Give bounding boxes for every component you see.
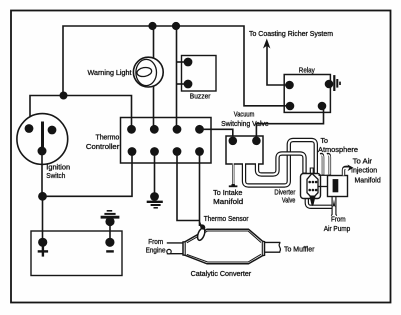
- relay K1: [284, 75, 333, 113]
- ground: relay case: [334, 75, 340, 91]
- svg-text:Controller: Controller: [86, 144, 120, 151]
- diverter valve body: [301, 174, 321, 206]
- hose: vacuum switching valve to diverter valve via overhead loop: [244, 140, 316, 186]
- hose: from air pump: [331, 196, 336, 216]
- port flare: intake manifold stub end: [229, 185, 238, 186]
- label: Ignition Switch: [46, 165, 70, 181]
- hose: diverter valve bottom to air pump line: [307, 197, 334, 207]
- label: Vacuum Switching Valve: [221, 112, 269, 129]
- wire: ignition switch to battery junction: [41, 151, 43, 196]
- label: To Muffler: [284, 246, 315, 253]
- node: top bus junction to buzzer line: [172, 22, 180, 30]
- label: From Engine: [146, 239, 166, 254]
- label: To Coasting Richer System: [249, 31, 333, 38]
- arrow: to coasting richer system: [263, 39, 270, 49]
- lamp: warning light bulb: [133, 57, 163, 87]
- label: Thermo Sensor: [204, 216, 250, 223]
- svg-text:Ignition: Ignition: [46, 165, 70, 172]
- label: Diverter Valve: [274, 189, 296, 204]
- ground: under thermo controller: [147, 192, 163, 208]
- svg-text:Thermo Sensor: Thermo Sensor: [204, 216, 250, 223]
- label: To Atmosphere: [318, 138, 358, 154]
- svg-text:To Intake: To Intake: [213, 190, 242, 197]
- wire: relay to coasting richer system arrow: [267, 45, 290, 85]
- hose: vacuum switching valve to diverter valve housing (crossing line): [257, 154, 305, 175]
- node: left feed junction: [60, 92, 68, 100]
- node: battery junction: [38, 192, 47, 201]
- wire: buzzer line (top bus to controller dot 3): [176, 26, 178, 129]
- wire: controller dot 4 to vacuum switching valve: [200, 129, 233, 141]
- svg-text:Thermo: Thermo: [96, 135, 120, 142]
- svg-text:Air Pump: Air Pump: [324, 226, 351, 233]
- label: Thermo Controller: [86, 135, 120, 152]
- vacuum switching valve V1: [226, 136, 263, 164]
- wire: junction to controller dot 1: [64, 96, 132, 130]
- catalytic converter body: [167, 229, 281, 264]
- arrow: from air pump: [333, 199, 336, 207]
- thermo sensor: [196, 222, 206, 241]
- wire: top bus from left drop to right drop: [63, 26, 290, 106]
- svg-text:Engine: Engine: [146, 247, 166, 254]
- svg-text:To Coasting Richer System: To Coasting Richer System: [249, 31, 333, 38]
- label: From Air Pump: [324, 217, 351, 234]
- svg-text:Catalytic Converter: Catalytic Converter: [191, 271, 252, 278]
- svg-text:From: From: [148, 239, 163, 246]
- hose: vacuum switching valve to intake manifold: [232, 163, 234, 185]
- node: top bus junction to warning light: [148, 22, 156, 30]
- ignition switch S1: [17, 114, 68, 165]
- pipe: to air injection manifold: [344, 165, 354, 176]
- svg-text:To Muffler: To Muffler: [284, 246, 315, 253]
- battery BT1: [31, 231, 122, 276]
- svg-text:Manifold: Manifold: [355, 178, 381, 185]
- label: Warning Light: [88, 70, 132, 77]
- label: Buzzer: [190, 94, 211, 101]
- buzzer B1: [177, 56, 217, 92]
- svg-text:Relay: Relay: [299, 68, 315, 75]
- vents: to atmosphere: [320, 154, 330, 175]
- label: Relay: [299, 68, 315, 75]
- svg-text:Switch: Switch: [46, 173, 65, 180]
- wire: warning light drop (top bus to controller dot 2): [153, 26, 155, 129]
- svg-text:Diverter: Diverter: [274, 189, 296, 196]
- wire: controller dot 2 to ground: [154, 152, 156, 195]
- thermo controller U1: [121, 118, 212, 164]
- wire: controller dot 4 bottom to thermo sensor: [199, 152, 201, 227]
- label: Catalytic Converter: [191, 271, 252, 278]
- svg-text:Injection: Injection: [351, 168, 377, 175]
- svg-text:From: From: [331, 217, 346, 224]
- svg-text:To Air: To Air: [353, 159, 373, 166]
- wire: relay bottom right to vacuum switching valve: [256, 106, 323, 141]
- label: To Air Injection Manifold: [351, 159, 381, 185]
- hose: diverter valve top port: [310, 168, 314, 176]
- svg-text:Vacuum: Vacuum: [234, 112, 255, 119]
- svg-text:Manifold: Manifold: [213, 199, 243, 206]
- label: To Intake Manifold: [213, 190, 243, 206]
- svg-text:Buzzer: Buzzer: [190, 94, 211, 101]
- ground: battery negative: [101, 211, 120, 242]
- wire: battery junction to controller dot 1 bottom: [43, 152, 133, 197]
- svg-text:Valve: Valve: [282, 197, 296, 204]
- svg-text:To: To: [321, 138, 329, 145]
- svg-text:Atmosphere: Atmosphere: [318, 147, 358, 154]
- wire: junction to ignition switch: [30, 96, 64, 129]
- wire: controller dot 3 to thermo sensor pair: [177, 152, 200, 221]
- wire: junction to battery positive: [42, 196, 44, 242]
- solenoid: air switching unit: [318, 175, 348, 196]
- svg-text:Warning Light: Warning Light: [88, 70, 132, 77]
